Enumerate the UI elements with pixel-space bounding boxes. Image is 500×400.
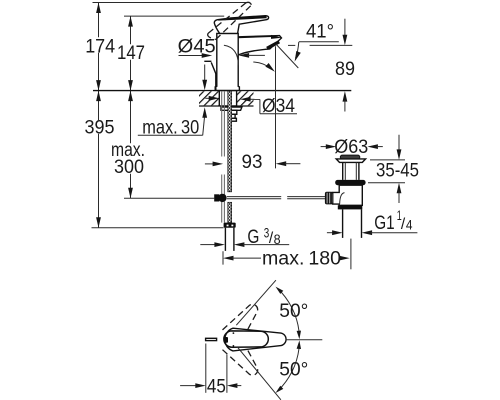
handle axis centerline [286, 339, 323, 341]
svg-text:89: 89 [335, 59, 355, 80]
svg-text:174: 174 [85, 36, 115, 57]
drain tailpipe [343, 209, 362, 238]
label 45 [207, 376, 226, 397]
water stream diagonal line [276, 44, 298, 68]
drain pipe centerline extension [350, 239, 352, 270]
dimension d63 arrows [321, 144, 383, 149]
handle dot lower [233, 345, 235, 347]
drain coupling band [338, 205, 363, 209]
smooth supply hose lower part [222, 175, 225, 223]
counter hatching right [237, 91, 254, 105]
svg-text:395: 395 [85, 117, 115, 138]
extension line 395 bottom (hose end level) [92, 227, 224, 229]
lever raised dashed outline [208, 2, 252, 39]
label diameter 45 [178, 36, 216, 57]
mounting hole wall right [236, 91, 238, 106]
knurled adjuster knob [325, 192, 332, 204]
dimension line 147/max300 vertical [128, 16, 133, 198]
svg-text:300: 300 [114, 157, 144, 178]
handle cap marking tick [225, 337, 228, 343]
spout swivel arc left [224, 45, 238, 65]
handle rotated up dashed outline [223, 304, 258, 329]
dimension arrows d45 [179, 53, 265, 58]
dimension G1-1/4 arrows [327, 230, 418, 235]
angle arc lower 50deg with arrows [276, 340, 302, 393]
extension lines 45 [206, 344, 227, 393]
dimension line 174/395 vertical [96, 3, 101, 228]
label 89 [335, 59, 355, 80]
braided supply hose upper part [228, 91, 232, 192]
smooth supply hose upper part [222, 91, 225, 157]
svg-text:147: 147 [117, 43, 145, 64]
label 41 deg with underline and leader [295, 21, 339, 61]
drain o-ring seal [335, 180, 365, 185]
pop-up rod horizontal right segment [287, 197, 325, 199]
spout swivel arc right with arrow [253, 62, 275, 72]
dimension 93 [205, 161, 301, 166]
svg-text:35-45: 35-45 [376, 161, 419, 182]
label max 30 with underline and arrows [138, 65, 207, 139]
svg-text:G1: G1 [374, 213, 394, 234]
svg-text:max. 180: max. 180 [262, 249, 341, 270]
faucet body outline [215, 33, 239, 90]
angle leg upper [236, 280, 276, 325]
dimension extension line top (lever raised height 174) [93, 2, 248, 4]
label d63 [334, 137, 368, 158]
label 50deg upper [279, 301, 308, 322]
label 35-45 [376, 161, 419, 182]
angle reference line [288, 44, 352, 46]
pop-up rod knob at faucet [204, 61, 216, 90]
dimension 89 vertical [343, 19, 348, 112]
angle arc upper 50deg with arrows [276, 287, 302, 340]
G3/8 hose end fitting [224, 223, 236, 228]
label max 180 [262, 249, 341, 270]
label max 300 [111, 140, 145, 178]
svg-text:45: 45 [207, 376, 226, 397]
extension line max300 bottom (hose connect level) [124, 197, 214, 199]
washer under counter [221, 107, 242, 110]
braided supply hose lower part [228, 202, 232, 222]
pop-up rod pivot dot [218, 194, 226, 202]
drain flange [336, 159, 365, 163]
label 395 [85, 117, 115, 138]
dimension extension line (lever height 147) [124, 15, 224, 17]
threaded nipple below fitting [225, 228, 234, 251]
counter hatching left [199, 91, 219, 105]
extension line spout outlet vertical [275, 46, 277, 168]
handle dot upper [233, 332, 235, 334]
label 50deg lower [279, 360, 308, 381]
pop-up rod horizontal left segment [227, 197, 281, 199]
spout aerator slash black [267, 42, 279, 49]
label 174 [85, 36, 115, 57]
svg-text:50°: 50° [279, 301, 308, 322]
svg-text:8: 8 [274, 231, 281, 247]
counter top surface line [93, 90, 351, 92]
dimension 45 arrows [180, 383, 241, 388]
label 93 [242, 152, 263, 173]
label diameter 34 with frame and leader [205, 96, 297, 117]
mounting nut steps [228, 110, 237, 121]
svg-text:4: 4 [406, 217, 413, 233]
faucet spout [238, 35, 282, 55]
extension line hose centerline [222, 251, 224, 264]
mounting hole wall left [218, 91, 220, 106]
svg-text:Ø45: Ø45 [178, 36, 216, 57]
label G1-1/4 [374, 208, 412, 234]
drain body [333, 185, 363, 205]
top view handle inner outline [224, 331, 268, 347]
svg-text:G: G [247, 227, 259, 248]
extension lines 35-45 [368, 160, 405, 183]
pop-up rod clamp square [214, 194, 219, 201]
top view pop-up rod stub [206, 338, 217, 340]
svg-text:93: 93 [242, 152, 263, 173]
svg-text:Ø63: Ø63 [334, 137, 368, 158]
counter bottom line [199, 105, 254, 107]
drain plug dome top [340, 155, 360, 159]
faucet lever handle [214, 15, 268, 33]
dimension G3/8 arrows [200, 242, 289, 247]
top view handle outer outline [225, 328, 286, 351]
svg-text:41°: 41° [306, 21, 334, 42]
angle leg lower [237, 347, 281, 400]
drain neck [343, 162, 359, 180]
svg-text:50°: 50° [279, 360, 308, 381]
label 147 [117, 43, 145, 64]
dimension 35-45 vertical [397, 135, 402, 203]
handle rotated down dashed outline [223, 350, 258, 375]
label G3/8 [247, 226, 280, 248]
dimension max 180 [223, 256, 350, 261]
